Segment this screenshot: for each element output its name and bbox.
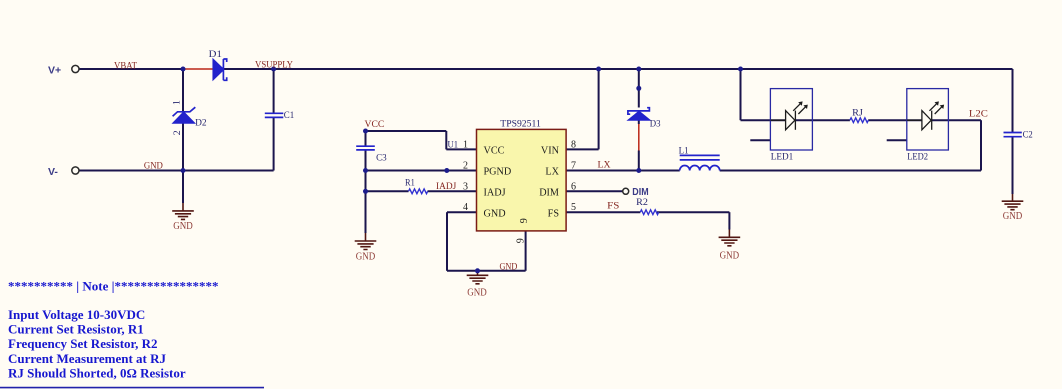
svg-text:LED2: LED2 [907, 152, 928, 163]
svg-text:Current Set Resistor, R1: Current Set Resistor, R1 [8, 322, 144, 337]
svg-text:C2: C2 [1023, 130, 1033, 141]
svg-text:8: 8 [571, 139, 576, 150]
svg-text:2: 2 [463, 161, 468, 172]
svg-text:GND: GND [1003, 211, 1023, 222]
svg-text:9: 9 [516, 238, 527, 243]
svg-text:3: 3 [463, 181, 468, 192]
svg-text:IADJ: IADJ [484, 188, 506, 199]
svg-text:LED1: LED1 [771, 152, 794, 163]
svg-text:L2C: L2C [969, 108, 988, 119]
svg-text:IADJ: IADJ [436, 181, 456, 192]
svg-text:GND: GND [720, 250, 740, 261]
svg-text:Current Measurement at RJ: Current Measurement at RJ [8, 351, 167, 366]
svg-text:1: 1 [172, 100, 183, 105]
svg-text:VCC: VCC [365, 119, 385, 130]
svg-text:PGND: PGND [484, 167, 512, 178]
svg-text:U1: U1 [448, 140, 459, 151]
svg-text:C3: C3 [376, 153, 387, 164]
svg-text:LX: LX [598, 159, 611, 170]
svg-text:Frequency Set Resistor, R2: Frequency Set Resistor, R2 [8, 336, 158, 351]
svg-text:5: 5 [571, 202, 576, 213]
svg-text:4: 4 [463, 202, 468, 213]
svg-text:GND: GND [484, 208, 506, 219]
svg-text:GND: GND [500, 262, 518, 273]
svg-text:LX: LX [545, 167, 559, 178]
svg-text:GND: GND [173, 221, 193, 232]
svg-text:R2: R2 [636, 197, 648, 208]
svg-text:6: 6 [571, 181, 576, 192]
svg-text:1: 1 [463, 139, 468, 150]
svg-text:C1: C1 [284, 110, 294, 121]
svg-text:R1: R1 [405, 178, 415, 189]
svg-text:9: 9 [519, 218, 530, 223]
svg-text:RJ: RJ [852, 108, 863, 119]
svg-text:********** | Note |***********: ********** | Note |**************** [8, 279, 218, 294]
svg-text:D2: D2 [195, 117, 207, 128]
svg-text:FS: FS [607, 201, 619, 212]
svg-text:VIN: VIN [541, 146, 560, 157]
svg-text:FS: FS [548, 208, 560, 219]
svg-text:VBAT: VBAT [114, 60, 137, 71]
svg-text:V-: V- [48, 166, 58, 178]
svg-text:D1: D1 [209, 49, 222, 60]
svg-text:L1: L1 [679, 145, 689, 156]
svg-text:DIM: DIM [539, 188, 559, 199]
svg-text:VCC: VCC [484, 146, 505, 157]
svg-text:Input Voltage 10-30VDC: Input Voltage 10-30VDC [8, 307, 145, 322]
svg-text:GND: GND [356, 251, 376, 262]
svg-text:GND: GND [467, 287, 487, 298]
svg-text:TPS92511: TPS92511 [500, 118, 541, 129]
svg-text:D3: D3 [650, 119, 661, 130]
svg-text:GND: GND [144, 161, 163, 172]
svg-text:V+: V+ [48, 65, 61, 77]
svg-text:2: 2 [172, 130, 183, 135]
svg-text:7: 7 [571, 161, 576, 172]
svg-text:RJ Should Shorted, 0Ω Resistor: RJ Should Shorted, 0Ω Resistor [8, 366, 186, 381]
svg-text:VSUPPLY: VSUPPLY [255, 59, 293, 70]
